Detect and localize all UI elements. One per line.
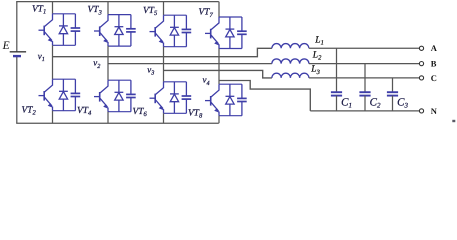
- wire: leg 1 midpoint vertical (node v1): [52, 45, 54, 79]
- wire: leg 3 midpoint vertical (node v3): [163, 47, 165, 82]
- wire: leg 2 midpoint vertical (node v2): [107, 46, 109, 80]
- capacitor of VT3 (snubber): [126, 15, 136, 46]
- wire: cell bottom bus of VT7: [219, 48, 242, 50]
- diode of VT5 (freewheel): [170, 15, 179, 47]
- svg-text:C: C: [431, 73, 437, 83]
- diode of VT8 (freewheel): [226, 84, 235, 116]
- diode of VT6 (freewheel): [170, 82, 179, 114]
- wire: leg 2 top stub: [107, 2, 109, 15]
- terminal C (open circle): [419, 76, 423, 80]
- terminal A (open circle): [419, 46, 423, 50]
- wire: DC bus top rail: [16, 1, 219, 3]
- wire: cell top bus of VT1: [53, 13, 76, 15]
- wire: cell top bus of VT3: [108, 14, 131, 16]
- inductor L3: [272, 73, 309, 78]
- capacitor of VT6 (snubber): [182, 82, 192, 114]
- capacitor of VT5 (snubber): [182, 15, 192, 47]
- transistor VT7 (IGBT): [205, 17, 220, 49]
- capacitor of VT7 (snubber): [237, 17, 247, 49]
- terminal B (open circle): [419, 62, 423, 66]
- wire: left rail lower (E- to bottom rail): [16, 56, 18, 123]
- capacitor C2: [359, 64, 370, 111]
- wire: leg 2 bottom stub: [107, 112, 109, 124]
- wire: leg 1 top stub: [52, 2, 54, 14]
- svg-text:B: B: [431, 58, 437, 68]
- wire: node v1 to L1 (with jog up): [53, 48, 272, 56]
- wire: DC bus bottom rail: [16, 122, 219, 124]
- diode of VT2 (freewheel): [59, 79, 68, 111]
- transistor VT6 (IGBT): [150, 82, 165, 114]
- transistor VT1 (IGBT): [39, 14, 54, 46]
- wire: phase C line: [309, 77, 420, 79]
- diode of VT3 (freewheel): [115, 15, 124, 46]
- wire: cell top bus of VT6: [164, 81, 187, 83]
- wire: leg 4 bottom stub: [218, 116, 220, 124]
- wire: cell bottom bus of VT3: [108, 45, 131, 47]
- wire: phase A line: [309, 47, 420, 49]
- wire: cell top bus of VT8: [219, 83, 242, 85]
- inductor L1: [272, 44, 309, 49]
- transistor VT3 (IGBT): [94, 15, 109, 46]
- capacitor C1: [331, 48, 342, 111]
- diode of VT1 (freewheel): [59, 14, 68, 46]
- wire: cell bottom bus of VT8: [219, 115, 242, 117]
- wire: leg 3 top stub: [163, 2, 165, 16]
- svg-text:A: A: [431, 43, 438, 53]
- diode of VT7 (freewheel): [226, 17, 235, 49]
- battery E: [10, 52, 26, 56]
- wire: leg 4 top stub: [218, 2, 220, 17]
- stray dot (scan artifact bottom right): [452, 120, 455, 122]
- wire: leg 1 bottom stub: [52, 111, 54, 124]
- wire: cell top bus of VT2: [53, 78, 76, 80]
- wire: cell top bus of VT4: [108, 79, 131, 81]
- wire: cell bottom bus of VT1: [53, 44, 76, 46]
- wire: cell bottom bus of VT6: [164, 112, 187, 114]
- wire: leg 4 midpoint vertical (node v4): [218, 49, 220, 85]
- svg-text:E: E: [2, 40, 10, 52]
- capacitor C3: [387, 78, 398, 111]
- wire: cell top bus of VT5: [164, 14, 187, 16]
- wire: leg 3 bottom stub: [163, 113, 165, 123]
- wire: cell top bus of VT7: [219, 16, 242, 18]
- transistor VT5 (IGBT): [150, 15, 165, 47]
- transistor VT8 (IGBT): [205, 84, 220, 116]
- wire: N rail: [310, 110, 419, 112]
- capacitor of VT8 (snubber): [237, 84, 247, 116]
- wire: node v4 to N rail (stepped): [219, 81, 310, 111]
- wire: cell bottom bus of VT4: [108, 111, 131, 113]
- wire: cell bottom bus of VT5: [164, 46, 187, 48]
- wire: cell bottom bus of VT2: [53, 110, 76, 112]
- svg-text:N: N: [431, 106, 438, 116]
- wire: left rail upper (E+ to top rail): [16, 2, 18, 52]
- diode of VT4 (freewheel): [115, 80, 124, 112]
- terminal N (open circle): [419, 109, 423, 113]
- inductor L2: [272, 59, 309, 64]
- capacitor of VT1 (snubber): [71, 14, 81, 46]
- capacitor of VT2 (snubber): [71, 79, 81, 111]
- wire: node v3 to L3 (with jog down): [164, 70, 272, 78]
- wire: node v2 to L2: [108, 63, 272, 65]
- transistor VT2 (IGBT): [39, 79, 54, 111]
- transistor VT4 (IGBT): [94, 80, 109, 112]
- capacitor of VT4 (snubber): [126, 80, 136, 112]
- wire: phase B line: [309, 63, 420, 65]
